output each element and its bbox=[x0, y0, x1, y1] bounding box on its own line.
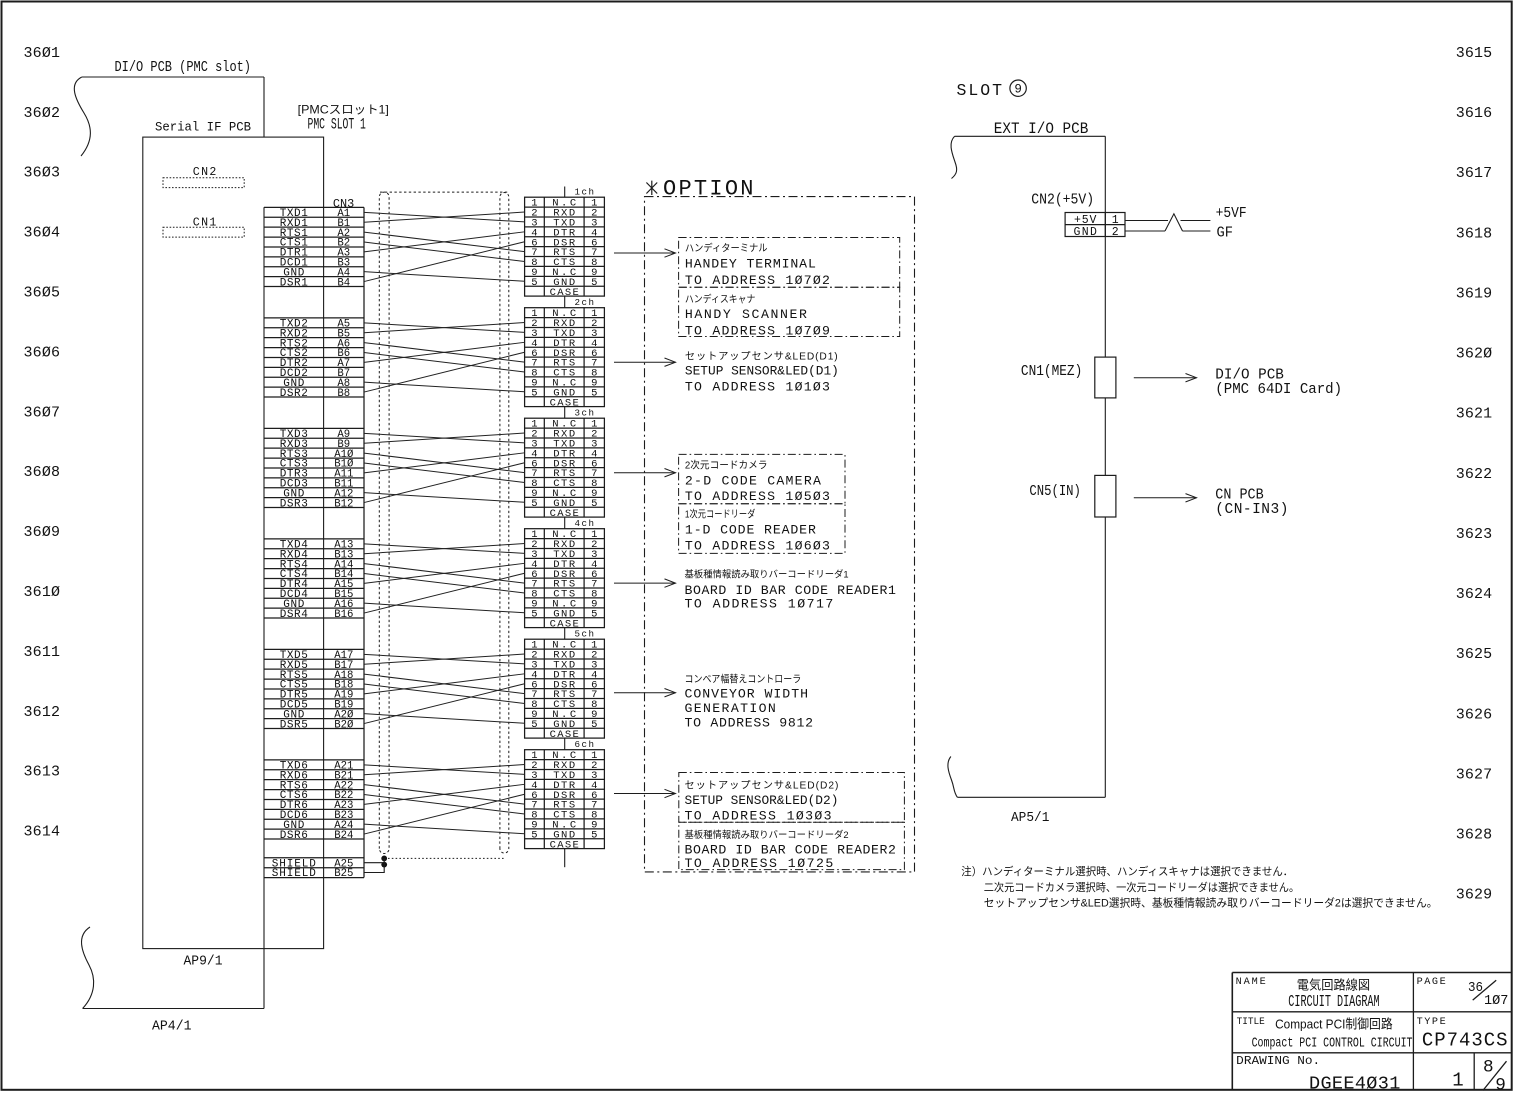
svg-text:5: 5 bbox=[591, 829, 597, 841]
svg-text:NAME: NAME bbox=[1236, 977, 1266, 988]
wire ch2 DTR crossover bbox=[364, 342, 525, 362]
svg-text:基板種情報読み取りバーコードリーダ1: 基板種情報読み取りバーコードリーダ1 bbox=[685, 569, 849, 581]
svg-text:3623: 3623 bbox=[1456, 526, 1492, 543]
svg-text:3622: 3622 bbox=[1456, 466, 1492, 483]
wire ch5 GND crossover bbox=[364, 714, 525, 724]
svg-text:AP4/1: AP4/1 bbox=[152, 1018, 192, 1034]
svg-text:TO ADDRESS 1Ø6Ø3: TO ADDRESS 1Ø6Ø3 bbox=[685, 538, 830, 553]
wire ch4 DTR crossover bbox=[364, 563, 525, 583]
3ch label and tick bbox=[565, 406, 594, 418]
connector CN5(IN) box bbox=[1095, 475, 1116, 517]
svg-text:36Ø7: 36Ø7 bbox=[24, 404, 61, 421]
connector 4ch block grid bbox=[525, 529, 605, 628]
svg-text:5: 5 bbox=[531, 387, 537, 399]
svg-text:B16: B16 bbox=[334, 609, 353, 621]
arrow option link 2 bbox=[614, 358, 676, 366]
wire ch5 RXD crossover bbox=[364, 654, 525, 664]
svg-text:5: 5 bbox=[591, 277, 597, 289]
wire ch6 RXD crossover bbox=[364, 765, 525, 775]
Serial IF PCB box bbox=[143, 137, 324, 949]
svg-text:5: 5 bbox=[531, 719, 537, 731]
wire ch6 CTS crossover bbox=[364, 795, 525, 814]
CN PCB (CN-IN3) label bbox=[1215, 488, 1288, 519]
OPTION label with asterisk bbox=[646, 177, 753, 202]
title block TITLE cell bbox=[1237, 1017, 1413, 1052]
title block PAGE cell bbox=[1417, 977, 1509, 1009]
svg-text:DSR2: DSR2 bbox=[280, 388, 308, 400]
wire ch3 GND crossover bbox=[364, 493, 525, 503]
DI/O PCB (PMC 64DI Card) label bbox=[1215, 367, 1342, 398]
svg-text:GF: GF bbox=[1217, 225, 1234, 242]
option box SETUP SENSOR LED D2 bbox=[679, 773, 905, 823]
svg-text:EXT I/O PCB: EXT I/O PCB bbox=[994, 120, 1089, 138]
svg-text:36Ø4: 36Ø4 bbox=[24, 225, 61, 242]
title block grid bbox=[1232, 973, 1511, 1090]
wire ch5 TXD crossover bbox=[364, 654, 525, 664]
4ch pin labels bbox=[531, 529, 597, 630]
6ch CASE ground stub bbox=[564, 849, 566, 868]
right margin line numbers 3615-3629 bbox=[1456, 45, 1492, 904]
wire ch4 DSR crossover bbox=[364, 573, 525, 613]
svg-text:3628: 3628 bbox=[1456, 827, 1492, 844]
3ch pin labels bbox=[531, 419, 597, 520]
option text 1-D CODE READER bbox=[685, 507, 830, 553]
connector CN3 pin table grid bbox=[264, 207, 364, 877]
svg-text:CIRCUIT DIAGRAM: CIRCUIT DIAGRAM bbox=[1288, 993, 1379, 1011]
svg-text:5: 5 bbox=[591, 387, 597, 399]
svg-text:CP743CS: CP743CS bbox=[1422, 1029, 1508, 1051]
1ch label and tick bbox=[565, 187, 594, 198]
svg-text:1Ø7: 1Ø7 bbox=[1484, 994, 1508, 1009]
left margin line numbers 3601-3614 bbox=[24, 45, 61, 841]
svg-text:(CN-IN3): (CN-IN3) bbox=[1215, 502, 1288, 518]
option text SETUP SENSOR LED D2 bbox=[685, 779, 839, 823]
svg-text:3625: 3625 bbox=[1456, 646, 1492, 663]
svg-text:SETUP SENSOR&LED(D2): SETUP SENSOR&LED(D2) bbox=[685, 793, 839, 808]
svg-text:6ch: 6ch bbox=[575, 739, 595, 750]
arrow option link 5 bbox=[614, 689, 676, 697]
4ch label and tick bbox=[565, 517, 594, 529]
svg-text:3612: 3612 bbox=[24, 704, 61, 721]
svg-text:Compact PCI CONTROL CIRCUIT: Compact PCI CONTROL CIRCUIT bbox=[1252, 1035, 1413, 1051]
wire ch2 RXD crossover bbox=[364, 323, 525, 333]
svg-text:3627: 3627 bbox=[1456, 766, 1492, 783]
svg-text:B25: B25 bbox=[334, 868, 353, 880]
wire ch2 CTS crossover bbox=[364, 353, 525, 372]
6ch pin labels bbox=[531, 750, 597, 851]
svg-text:CN2: CN2 bbox=[193, 166, 217, 179]
wire ch4 RTS crossover bbox=[364, 564, 525, 583]
svg-text:5: 5 bbox=[591, 498, 597, 510]
svg-text:2-D CODE CAMERA: 2-D CODE CAMERA bbox=[685, 474, 821, 489]
wire ch6 RTS crossover bbox=[364, 785, 525, 804]
wire ch6 DTR crossover bbox=[364, 784, 525, 804]
OPTION dash-dot outer box bbox=[645, 197, 915, 872]
wire ch4 CTS crossover bbox=[364, 574, 525, 593]
wire ch1 GND crossover bbox=[364, 272, 525, 282]
svg-text:PMC SLOT 1: PMC SLOT 1 bbox=[308, 115, 366, 133]
svg-text:CN2(+5V): CN2(+5V) bbox=[1031, 191, 1094, 208]
svg-text:TO ADDRESS 1Ø7Ø2: TO ADDRESS 1Ø7Ø2 bbox=[685, 273, 830, 288]
wire SHIELD B25 bbox=[364, 858, 384, 872]
svg-text:1ch: 1ch bbox=[575, 187, 595, 198]
svg-text:DSR6: DSR6 bbox=[280, 830, 308, 842]
svg-text:3614: 3614 bbox=[24, 824, 61, 841]
svg-text:セットアップセンサ&LED選択時、基板種情報読み取りバーコー: セットアップセンサ&LED選択時、基板種情報読み取りバーコードリーダ2は選択でき… bbox=[984, 896, 1438, 910]
svg-text:B24: B24 bbox=[334, 830, 354, 842]
svg-text:セットアップセンサ&LED(D1): セットアップセンサ&LED(D1) bbox=[685, 350, 838, 362]
svg-text:B8: B8 bbox=[337, 388, 350, 400]
connector CN2 dashed outline bbox=[163, 178, 244, 188]
svg-text:3617: 3617 bbox=[1456, 165, 1492, 182]
arrow option link 3 bbox=[614, 469, 676, 477]
svg-text:3615: 3615 bbox=[1456, 45, 1492, 62]
wire ch2 TXD crossover bbox=[364, 323, 525, 333]
svg-text:Compact PCI制御回路: Compact PCI制御回路 bbox=[1275, 1017, 1393, 1032]
wire ch5 CTS crossover bbox=[364, 684, 525, 703]
svg-text:1: 1 bbox=[1452, 1070, 1463, 1092]
wire ch3 DSR crossover bbox=[364, 463, 525, 503]
arrow option link 1 bbox=[614, 249, 676, 257]
svg-text:36Ø3: 36Ø3 bbox=[24, 165, 61, 182]
cable bundle dashed hairpin right bbox=[500, 193, 509, 853]
1ch pin labels bbox=[531, 198, 597, 299]
svg-text:AP5/1: AP5/1 bbox=[1011, 810, 1049, 826]
svg-text:SLOT: SLOT bbox=[957, 81, 1003, 100]
wire ch3 DTR crossover bbox=[364, 453, 525, 473]
svg-text:CONVEYOR WIDTH: CONVEYOR WIDTH bbox=[685, 687, 809, 702]
svg-text:HANDEY TERMINAL: HANDEY TERMINAL bbox=[685, 257, 816, 272]
wire ch4 RXD crossover bbox=[364, 544, 525, 554]
svg-text:5: 5 bbox=[591, 719, 597, 731]
svg-text:PAGE: PAGE bbox=[1417, 977, 1446, 988]
wire ch4 GND crossover bbox=[364, 603, 525, 613]
6ch label and tick bbox=[565, 738, 594, 750]
option box 2-D CODE CAMERA bbox=[679, 454, 845, 503]
wire ch1 DTR crossover bbox=[364, 232, 525, 252]
wire ch3 RTS crossover bbox=[364, 453, 525, 472]
svg-text:2ch: 2ch bbox=[575, 297, 595, 308]
svg-text:TO ADDRESS 1Ø725: TO ADDRESS 1Ø725 bbox=[685, 856, 834, 871]
svg-text:セットアップセンサ&LED(D2): セットアップセンサ&LED(D2) bbox=[685, 779, 839, 791]
svg-text:TITLE: TITLE bbox=[1237, 1017, 1265, 1028]
svg-text:3611: 3611 bbox=[24, 644, 61, 661]
SLOT 9 label bbox=[957, 80, 1027, 100]
CN3 signal and pin labels bbox=[280, 208, 354, 842]
svg-text:B12: B12 bbox=[334, 498, 353, 510]
svg-text:DRAWING No.: DRAWING No. bbox=[1236, 1055, 1320, 1068]
svg-text:36Ø8: 36Ø8 bbox=[24, 464, 61, 481]
svg-text:注）ハンディターミナル選択時、ハンディスキャナは選択できませ: 注）ハンディターミナル選択時、ハンディスキャナは選択できません． bbox=[961, 864, 1293, 878]
2ch label and tick bbox=[565, 296, 594, 308]
arrow option link 4 bbox=[614, 579, 676, 587]
svg-text:DGEE4Ø31: DGEE4Ø31 bbox=[1309, 1074, 1400, 1094]
svg-text:TO ADDRESS 1Ø5Ø3: TO ADDRESS 1Ø5Ø3 bbox=[685, 489, 830, 504]
title block TYPE cell bbox=[1417, 1017, 1508, 1051]
svg-text:1次元コードリーダ: 1次元コードリーダ bbox=[685, 507, 756, 520]
svg-text:SETUP SENSOR&LED(D1): SETUP SENSOR&LED(D1) bbox=[685, 364, 839, 379]
svg-text:TO ADDRESS 9812: TO ADDRESS 9812 bbox=[685, 715, 814, 730]
cable bundle dashed hairpin left bbox=[379, 192, 389, 853]
svg-text:36Ø5: 36Ø5 bbox=[24, 285, 61, 302]
wire ch1 RTS crossover bbox=[364, 232, 525, 251]
2ch pin labels bbox=[531, 308, 597, 409]
wire ch5 DTR crossover bbox=[364, 674, 525, 694]
svg-text:4ch: 4ch bbox=[575, 518, 595, 529]
svg-text:TO ADDRESS 1Ø3Ø3: TO ADDRESS 1Ø3Ø3 bbox=[685, 808, 832, 823]
CN2 +5V pin table bbox=[1065, 213, 1125, 240]
svg-text:二次元コードカメラ選択時、一次元コードリーダは選択できません: 二次元コードカメラ選択時、一次元コードリーダは選択できません。 bbox=[984, 880, 1299, 894]
wire ch5 DSR crossover bbox=[364, 684, 525, 724]
wire ch1 CTS crossover bbox=[364, 242, 525, 261]
wire break chevron bbox=[1165, 214, 1183, 231]
5ch label and tick bbox=[565, 627, 594, 639]
EXT I/O PCB break squiggle bottom bbox=[948, 757, 957, 798]
svg-text:3ch: 3ch bbox=[575, 408, 595, 419]
svg-text:GENERATION: GENERATION bbox=[685, 701, 776, 716]
svg-text:TO ADDRESS 1Ø1Ø3: TO ADDRESS 1Ø1Ø3 bbox=[685, 379, 830, 394]
option text 2-D CODE CAMERA bbox=[685, 458, 830, 504]
connector 3ch block grid bbox=[525, 418, 605, 517]
svg-text:電気回路線図: 電気回路線図 bbox=[1297, 978, 1370, 993]
arrow CN5 to CN PCB bbox=[1134, 494, 1197, 502]
svg-text:3621: 3621 bbox=[1456, 406, 1492, 423]
svg-text:36Ø1: 36Ø1 bbox=[24, 45, 61, 62]
wire ch6 GND crossover bbox=[364, 824, 525, 834]
svg-text:DSR5: DSR5 bbox=[280, 719, 308, 731]
connector 5ch block grid bbox=[525, 639, 605, 738]
connector 2ch block grid bbox=[525, 308, 605, 407]
svg-text:B2Ø: B2Ø bbox=[334, 719, 354, 731]
svg-text:9: 9 bbox=[1014, 83, 1022, 97]
DI/O PCB left break squiggle top bbox=[74, 77, 90, 156]
5ch pin labels bbox=[531, 640, 597, 741]
svg-text:5: 5 bbox=[591, 608, 597, 620]
svg-text:3618: 3618 bbox=[1456, 225, 1492, 242]
svg-text:361Ø: 361Ø bbox=[24, 584, 61, 601]
option text BOARD ID BAR CODE READER2 bbox=[685, 829, 896, 871]
connector 1ch block grid bbox=[525, 197, 605, 296]
svg-text:36Ø2: 36Ø2 bbox=[24, 105, 61, 122]
CN3 SHIELD rows bbox=[264, 858, 364, 880]
svg-text:3624: 3624 bbox=[1456, 586, 1492, 603]
wire +5V pin1 to +5VF bbox=[1125, 220, 1210, 222]
svg-text:(PMC 64DI Card): (PMC 64DI Card) bbox=[1215, 382, 1342, 398]
wire ch4 TXD crossover bbox=[364, 544, 525, 554]
option box 1-D CODE READER bbox=[679, 504, 845, 554]
svg-text:AP9/1: AP9/1 bbox=[184, 954, 223, 970]
svg-text:TYPE: TYPE bbox=[1417, 1017, 1446, 1028]
wire ch1 DSR crossover bbox=[364, 242, 525, 282]
svg-text:36Ø9: 36Ø9 bbox=[24, 524, 61, 541]
title block NAME cell bbox=[1236, 977, 1380, 1011]
connector 6ch block grid bbox=[525, 750, 605, 849]
connector CN1(MEZ) box bbox=[1095, 357, 1116, 398]
option box BOARD ID BAR CODE READER2 bbox=[679, 822, 905, 869]
svg-text:5: 5 bbox=[531, 608, 537, 620]
wire ch2 GND crossover bbox=[364, 382, 525, 392]
wire ch6 TXD crossover bbox=[364, 765, 525, 775]
wire ch1 RXD crossover bbox=[364, 212, 525, 222]
svg-text:3629: 3629 bbox=[1456, 887, 1492, 904]
svg-text:362Ø: 362Ø bbox=[1456, 346, 1492, 363]
svg-text:ハンディターミナル: ハンディターミナル bbox=[685, 241, 768, 254]
svg-text:5: 5 bbox=[531, 829, 537, 841]
svg-text:5: 5 bbox=[531, 498, 537, 510]
arrow option link 6 bbox=[614, 789, 676, 797]
svg-text:DI/O PCB (PMC slot): DI/O PCB (PMC slot) bbox=[115, 60, 252, 76]
svg-text:3613: 3613 bbox=[24, 764, 61, 781]
svg-text:9: 9 bbox=[1495, 1075, 1506, 1094]
svg-text:TO ADDRESS 1Ø7Ø9: TO ADDRESS 1Ø7Ø9 bbox=[685, 323, 830, 338]
svg-text:GND: GND bbox=[1073, 226, 1097, 239]
EXT I/O PCB break squiggle top bbox=[951, 136, 957, 178]
DI/O PCB left break squiggle bottom bbox=[82, 927, 94, 1009]
EXT I/O PCB outline bbox=[955, 136, 1106, 797]
svg-text:ハンディスキャナ: ハンディスキャナ bbox=[685, 293, 756, 306]
option text HANDY SCANNER bbox=[685, 293, 830, 339]
option text HANDEY TERMINAL bbox=[685, 241, 830, 288]
svg-text:3626: 3626 bbox=[1456, 706, 1492, 723]
svg-text:B4: B4 bbox=[337, 277, 350, 289]
svg-text:2次元コードカメラ: 2次元コードカメラ bbox=[685, 458, 768, 471]
option text CONVEYOR WIDTH GENERATION bbox=[685, 673, 814, 731]
svg-text:8: 8 bbox=[1483, 1058, 1494, 1078]
shield drain dotted line bbox=[384, 857, 504, 859]
title block DRAWING cell bbox=[1236, 1055, 1506, 1095]
wire ch5 RTS crossover bbox=[364, 674, 525, 693]
wire SHIELD A25 bbox=[364, 862, 384, 864]
svg-text:基板種情報読み取りバーコードリーダ2: 基板種情報読み取りバーコードリーダ2 bbox=[685, 829, 849, 841]
option box HANDY SCANNER bbox=[679, 287, 900, 336]
wire ch2 DSR crossover bbox=[364, 352, 525, 392]
svg-text:SHIELD: SHIELD bbox=[272, 868, 316, 880]
svg-text:5ch: 5ch bbox=[575, 629, 595, 640]
connector CN1 dashed outline bbox=[163, 227, 244, 237]
wire ch3 TXD crossover bbox=[364, 433, 525, 443]
svg-text:2: 2 bbox=[1112, 226, 1119, 239]
svg-text:コンベア幅替えコントローラ: コンベア幅替えコントローラ bbox=[685, 673, 802, 686]
wire ch3 RXD crossover bbox=[364, 433, 525, 443]
svg-text:36Ø6: 36Ø6 bbox=[24, 344, 61, 361]
svg-text:CN5(IN): CN5(IN) bbox=[1029, 484, 1081, 500]
wire ch3 CTS crossover bbox=[364, 463, 525, 482]
svg-text:TO ADDRESS 1Ø717: TO ADDRESS 1Ø717 bbox=[685, 596, 834, 611]
shield junction dots bbox=[381, 856, 387, 868]
svg-text:DSR1: DSR1 bbox=[280, 277, 308, 289]
svg-text:1-D CODE READER: 1-D CODE READER bbox=[685, 523, 816, 538]
svg-text:3616: 3616 bbox=[1456, 105, 1492, 122]
wire ch1 TXD crossover bbox=[364, 212, 525, 222]
DI/O PCB box outline bbox=[82, 77, 264, 1009]
svg-text:3619: 3619 bbox=[1456, 285, 1492, 302]
svg-text:HANDY SCANNER: HANDY SCANNER bbox=[685, 307, 807, 322]
option text SETUP SENSOR LED D1 bbox=[685, 350, 839, 394]
option text BOARD ID BAR CODE READER1 bbox=[685, 569, 896, 612]
svg-text:CN1(MEZ): CN1(MEZ) bbox=[1021, 364, 1082, 380]
svg-text:DSR3: DSR3 bbox=[280, 498, 308, 510]
svg-text:+5VF: +5VF bbox=[1216, 205, 1247, 222]
arrow CN1 to DI/O PCB bbox=[1134, 374, 1197, 382]
svg-text:5: 5 bbox=[531, 277, 537, 289]
svg-text:DSR4: DSR4 bbox=[280, 609, 308, 621]
wire ch6 DSR crossover bbox=[364, 794, 525, 834]
wire GND pin2 to GF bbox=[1125, 230, 1210, 232]
option box HANDEY TERMINAL bbox=[679, 238, 900, 288]
cable bundle top dashed line bbox=[380, 191, 509, 193]
svg-text:Serial IF PCB: Serial IF PCB bbox=[155, 119, 251, 134]
wire ch2 RTS crossover bbox=[364, 343, 525, 362]
